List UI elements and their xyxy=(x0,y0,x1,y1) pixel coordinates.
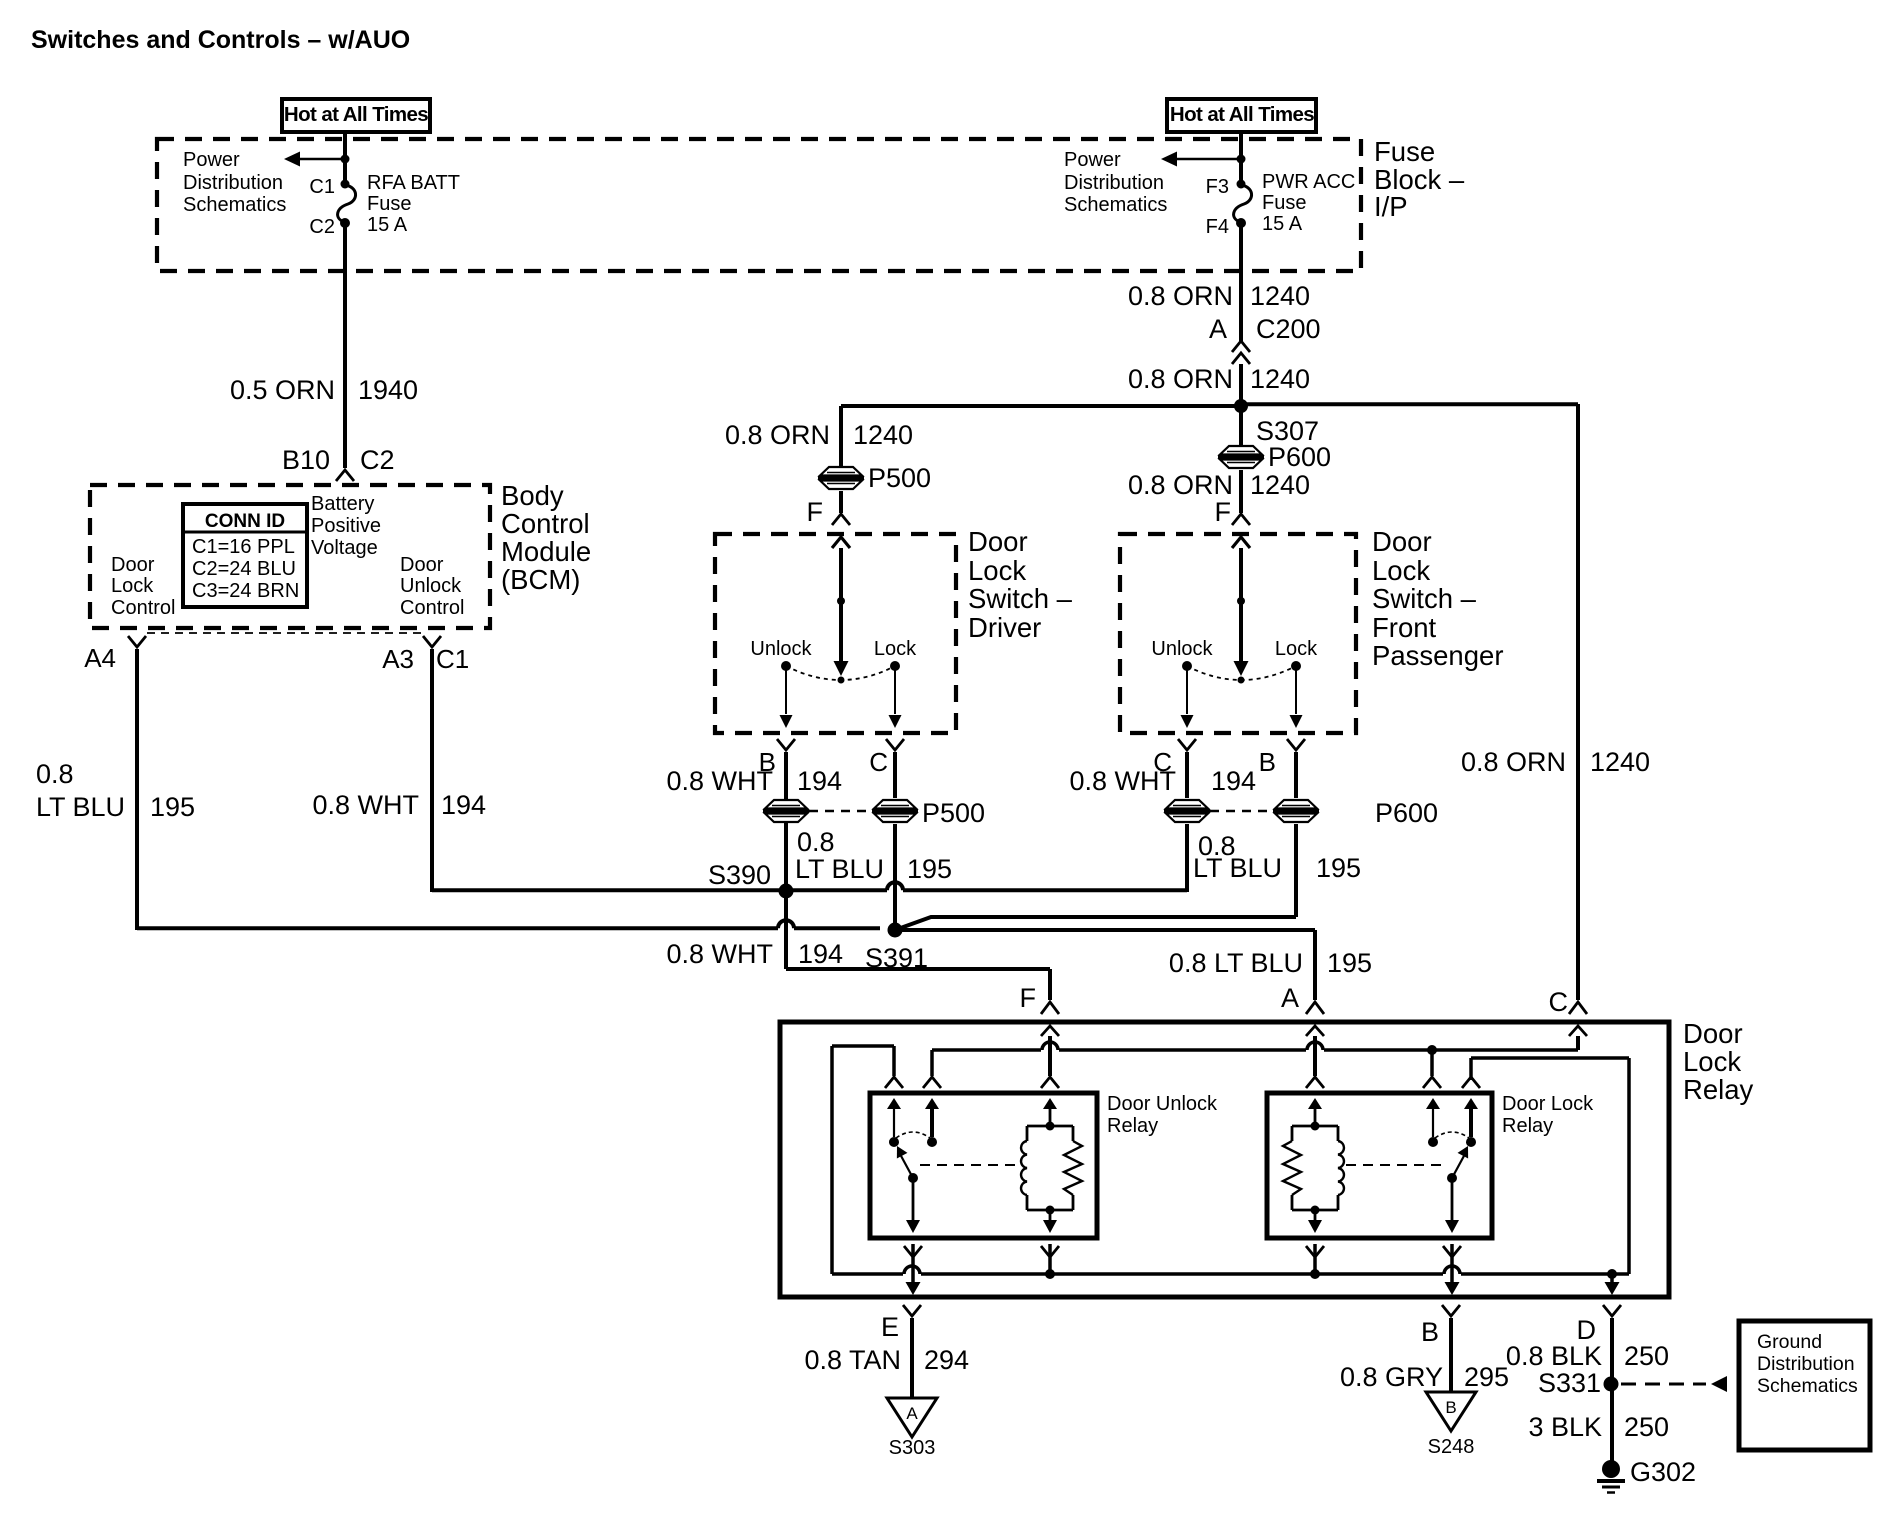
svg-text:Unlock: Unlock xyxy=(400,575,462,597)
svg-text:Lock: Lock xyxy=(1275,638,1318,660)
door unlock relay sub-box xyxy=(870,1093,1097,1238)
door lock switch driver feed arm xyxy=(839,548,843,662)
svg-text:C1=16 PPL: C1=16 PPL xyxy=(192,536,295,558)
wire: 0.8 ORN 1240 PWR ACC fuse F4 down to C200 xyxy=(1239,227,1243,341)
svg-text:Hot at All Times: Hot at All Times xyxy=(1170,103,1314,126)
wire: lock output to relay pin B xyxy=(1450,1244,1454,1282)
svg-text:Fuse: Fuse xyxy=(1374,136,1435,167)
svg-text:Unlock: Unlock xyxy=(750,638,812,660)
svg-text:I/P: I/P xyxy=(1374,191,1408,222)
lock relay contact dashed arc xyxy=(1435,1132,1469,1138)
svg-text:Door: Door xyxy=(111,554,155,576)
svg-text:194: 194 xyxy=(798,939,843,969)
svg-text:S303: S303 xyxy=(889,1437,936,1459)
relay internal: bottom bus xyxy=(832,1272,1629,1276)
connector P600 pair on passenger outputs xyxy=(1166,800,1208,809)
svg-text:B: B xyxy=(1421,1317,1439,1347)
svg-text:C200: C200 xyxy=(1256,314,1321,344)
svg-text:195: 195 xyxy=(150,792,195,822)
wire: unlock coil to bottom bus xyxy=(1048,1244,1052,1274)
connector: BCM pin A4 xyxy=(128,636,146,647)
relay internal: coil bottom junction dots xyxy=(1045,1269,1055,1279)
svg-text:P600: P600 xyxy=(1268,442,1331,472)
svg-text:Front: Front xyxy=(1372,612,1437,643)
svg-text:E: E xyxy=(881,1312,899,1342)
svg-text:Door: Door xyxy=(968,526,1028,557)
unlock relay coil xyxy=(1046,1122,1055,1131)
relay internal: lock relay NO branch xyxy=(1471,1056,1629,1060)
relay internal: pin C chevron inside xyxy=(1569,1026,1587,1036)
svg-text:Body: Body xyxy=(501,480,564,511)
svg-text:Ground: Ground xyxy=(1757,1331,1822,1353)
door lock switch front passenger unlock output xyxy=(1186,666,1188,714)
lock relay common pin arm xyxy=(1432,1103,1434,1137)
svg-text:Relay: Relay xyxy=(1107,1115,1158,1137)
wire: 0.8 WHT 194 passenger pin C down to S390 line xyxy=(1185,752,1189,798)
wire: 0.8 WHT 194 from BCM A3 down and right to S390 xyxy=(430,649,434,892)
svg-text:Lock: Lock xyxy=(874,638,917,660)
door lock switch driver lock output xyxy=(894,666,896,714)
hop: S390 line over driver pin C wire xyxy=(887,886,903,895)
svg-text:Distribution: Distribution xyxy=(1064,172,1164,194)
svg-text:Lock: Lock xyxy=(1683,1046,1741,1077)
svg-text:Fuse: Fuse xyxy=(1262,192,1306,214)
door lock switch front passenger output pin connectors xyxy=(1178,739,1196,750)
svg-text:A: A xyxy=(1209,314,1227,344)
svg-text:1240: 1240 xyxy=(1590,747,1650,777)
svg-text:1240: 1240 xyxy=(853,420,913,450)
svg-text:Control: Control xyxy=(501,508,590,539)
svg-text:LT BLU: LT BLU xyxy=(795,854,884,884)
door lock relay sub-box xyxy=(1267,1093,1492,1238)
fuse PWR ACC element xyxy=(1234,185,1252,222)
svg-text:F4: F4 xyxy=(1206,216,1229,238)
sub-box bottom pin connectors xyxy=(904,1246,922,1257)
svg-text:0.8: 0.8 xyxy=(797,827,835,857)
svg-text:Switch –: Switch – xyxy=(968,583,1073,614)
door lock switch driver dashed box xyxy=(715,534,956,733)
relay internal: left return branch xyxy=(832,1044,894,1048)
svg-text:294: 294 xyxy=(924,1345,969,1375)
svg-text:S390: S390 xyxy=(708,860,771,890)
svg-text:PWR ACC: PWR ACC xyxy=(1262,171,1355,193)
wire: S391 line right to relay A xyxy=(895,928,1315,932)
lock relay movable arm xyxy=(1452,1154,1465,1178)
svg-text:Lock: Lock xyxy=(111,575,154,597)
relay internal: pin F chevron inside xyxy=(1041,1026,1059,1036)
fuse RFA BATT terminal C1 xyxy=(341,180,350,189)
relay internal: D branch junction xyxy=(1607,1269,1617,1279)
svg-text:Distribution: Distribution xyxy=(183,172,283,194)
svg-text:194: 194 xyxy=(441,790,486,820)
svg-text:0.8 WHT: 0.8 WHT xyxy=(312,790,419,820)
door lock switch front passenger lock contact xyxy=(1291,661,1301,671)
door lock switch driver lock contact xyxy=(890,661,900,671)
node: branch to power distribution (right) xyxy=(1237,155,1246,164)
connector: driver switch pin F xyxy=(832,514,850,525)
label box: Hot at All Times (right) xyxy=(1167,99,1316,132)
svg-text:LT BLU: LT BLU xyxy=(1193,853,1282,883)
svg-text:0.5 ORN: 0.5 ORN xyxy=(230,375,335,405)
svg-text:0.8 WHT: 0.8 WHT xyxy=(1069,766,1176,796)
svg-text:0.8 ORN: 0.8 ORN xyxy=(1128,281,1233,311)
svg-text:A: A xyxy=(1281,983,1299,1013)
relay internal: pin A chevron inside xyxy=(1306,1026,1324,1036)
fuse block I/P dashed boundary xyxy=(157,139,1361,271)
svg-text:Distribution: Distribution xyxy=(1757,1353,1855,1375)
connector: relay pin C entry xyxy=(1569,1002,1587,1014)
svg-text:Switch –: Switch – xyxy=(1372,583,1477,614)
svg-text:(BCM): (BCM) xyxy=(501,564,580,595)
wire: 0.8 GRY 295 to S248 xyxy=(1449,1318,1453,1392)
connector: BCM B10 terminal xyxy=(336,470,354,481)
wire: unlock output to relay pin E xyxy=(911,1244,915,1282)
splice pack S303 triangle xyxy=(887,1398,937,1437)
svg-text:B: B xyxy=(1259,747,1276,777)
label box: Ground Distribution Schematics xyxy=(1739,1321,1870,1450)
wire: reference arrow to Power Distribution Schematics (left) xyxy=(299,158,345,161)
wire: reference arrow to Power Distribution Schematics (right) xyxy=(1176,158,1241,161)
splice S307 xyxy=(1234,399,1248,413)
svg-text:Positive: Positive xyxy=(311,515,381,537)
splice S390 xyxy=(779,884,794,899)
svg-text:Control: Control xyxy=(111,597,175,619)
fuse RFA BATT terminal C2 xyxy=(340,218,350,228)
svg-text:0.8: 0.8 xyxy=(36,759,74,789)
svg-text:194: 194 xyxy=(797,766,842,796)
lock relay output arm xyxy=(1451,1178,1454,1220)
svg-text:0.8 ORN: 0.8 ORN xyxy=(1461,747,1566,777)
unlock relay contact dashed arc xyxy=(896,1132,930,1138)
hop: S391 line over S390-relay wire xyxy=(778,924,794,933)
connector chevrons at sub-box pins xyxy=(885,1077,903,1088)
lock relay NO pin arm xyxy=(1469,1103,1473,1137)
lock relay coil xyxy=(1311,1122,1320,1131)
door lock switch driver unlock output xyxy=(785,666,787,714)
lock relay linkage dashes xyxy=(1346,1164,1444,1166)
svg-text:195: 195 xyxy=(1327,948,1372,978)
connector: relay pin E xyxy=(903,1305,921,1316)
node: branch to power distribution (left) xyxy=(341,155,350,164)
svg-text:Module: Module xyxy=(501,536,591,567)
svg-text:C3=24 BRN: C3=24 BRN xyxy=(192,580,299,602)
splice S391 xyxy=(888,923,903,938)
svg-text:1240: 1240 xyxy=(1250,364,1310,394)
connector: relay pin F entry xyxy=(1041,1002,1059,1014)
body control module dashed box xyxy=(90,485,490,628)
svg-text:Lock: Lock xyxy=(1372,555,1430,586)
unlock relay movable arm xyxy=(900,1154,913,1178)
svg-text:P500: P500 xyxy=(922,798,985,828)
svg-text:Unlock: Unlock xyxy=(1151,638,1213,660)
svg-text:0.8 LT BLU: 0.8 LT BLU xyxy=(1169,948,1303,978)
connector: BCM pin A3 / C1 xyxy=(423,636,441,647)
fuse PWR ACC terminal F3 xyxy=(1237,180,1246,189)
svg-text:Door: Door xyxy=(1683,1018,1743,1049)
svg-text:195: 195 xyxy=(907,854,952,884)
svg-text:Relay: Relay xyxy=(1683,1074,1754,1105)
BCM bottom connector face dashed line xyxy=(147,632,424,634)
svg-text:Fuse: Fuse xyxy=(367,193,411,215)
wire: 0.8 ORN 1240 S307 right to door lock relay pin C xyxy=(1241,402,1578,406)
svg-text:Door: Door xyxy=(1372,526,1432,557)
relay internal: junction on C bus xyxy=(1427,1045,1437,1055)
wire: battery feed into PWR ACC fuse xyxy=(1239,132,1243,181)
svg-text:Schematics: Schematics xyxy=(1064,194,1167,216)
wire: 0.8 ORN 1240 S307 left to driver switch feed xyxy=(841,404,1241,408)
splice pack S248 triangle xyxy=(1426,1392,1476,1431)
svg-text:Voltage: Voltage xyxy=(311,537,378,559)
svg-text:Power: Power xyxy=(1064,149,1121,171)
label box: Hot at All Times (left) xyxy=(282,99,430,132)
lock relay coil ground arm xyxy=(1314,1210,1317,1220)
svg-text:P500: P500 xyxy=(868,463,931,493)
door lock switch driver output pin connectors xyxy=(777,739,795,750)
wire: 0.5 ORN 1940 fuse C2 to BCM B10 xyxy=(343,227,347,468)
svg-text:Lock: Lock xyxy=(968,555,1026,586)
connector: relay pin B xyxy=(1442,1305,1460,1316)
unlock relay NC pin arm xyxy=(930,1103,934,1137)
ground G302 xyxy=(1602,1460,1620,1478)
door lock switch driver unlock contact xyxy=(781,661,791,671)
svg-text:RFA BATT: RFA BATT xyxy=(367,172,460,194)
svg-text:Battery: Battery xyxy=(311,493,374,515)
svg-text:Relay: Relay xyxy=(1502,1115,1553,1137)
splice S331 xyxy=(1604,1377,1619,1392)
wire: 0.8 LT BLU 195 from BCM A4 down and right to S391 xyxy=(135,649,139,930)
svg-text:A3: A3 xyxy=(382,644,414,674)
door lock switch front passenger feed arm xyxy=(1239,548,1243,662)
connector P500 pair on driver outputs xyxy=(765,800,807,809)
unlock relay output arm xyxy=(912,1178,915,1220)
svg-text:Door Lock: Door Lock xyxy=(1502,1093,1594,1115)
svg-text:LT BLU: LT BLU xyxy=(36,792,125,822)
door lock switch front passenger wiper dashed arc xyxy=(1187,666,1296,680)
svg-text:A: A xyxy=(906,1404,918,1423)
connector: relay pin D xyxy=(1603,1305,1621,1316)
svg-text:295: 295 xyxy=(1464,1362,1509,1392)
relay internal: bus from C to unlock relay NC pin xyxy=(932,1048,1578,1052)
svg-text:1240: 1240 xyxy=(1250,281,1310,311)
wire: S307 to P600 xyxy=(1239,406,1243,447)
svg-text:P600: P600 xyxy=(1375,798,1438,828)
svg-text:0.8 TAN: 0.8 TAN xyxy=(804,1345,901,1375)
svg-text:S248: S248 xyxy=(1428,1436,1475,1458)
wire: 0.8 TAN 294 to S303 xyxy=(910,1318,914,1398)
svg-text:F: F xyxy=(1215,497,1232,527)
svg-text:C: C xyxy=(1549,987,1569,1017)
wire: S391 diagonal to passenger-B line xyxy=(895,917,1296,930)
svg-text:1240: 1240 xyxy=(1250,470,1310,500)
svg-text:C1: C1 xyxy=(436,644,469,674)
svg-text:194: 194 xyxy=(1211,766,1256,796)
wire: lock coil to bottom bus xyxy=(1313,1244,1317,1274)
wire: down-right to relay F xyxy=(786,967,1050,971)
unlock relay coil feed arm xyxy=(1049,1103,1052,1126)
wire: 0.8 LT BLU 195 passenger pin B down to S391 line xyxy=(1294,752,1298,798)
door lock relay outer box xyxy=(780,1022,1669,1297)
svg-text:1940: 1940 xyxy=(358,375,418,405)
svg-text:15 A: 15 A xyxy=(367,214,408,236)
svg-text:195: 195 xyxy=(1316,853,1361,883)
unlock relay coil ground arm xyxy=(1049,1210,1052,1220)
unlock relay common pin arm xyxy=(893,1103,895,1137)
wire: 0.8 WHT 194 driver pin B to S390 xyxy=(784,752,788,799)
svg-text:Door: Door xyxy=(400,554,444,576)
unlock relay linkage dashes xyxy=(920,1164,1018,1166)
svg-text:G302: G302 xyxy=(1630,1457,1696,1487)
wire: 0.8 ORN 1240 C200 to S307 xyxy=(1239,364,1243,404)
wire: 0.8 BLK 250 to S331 xyxy=(1610,1318,1614,1461)
svg-text:B10: B10 xyxy=(282,445,330,475)
svg-text:F: F xyxy=(807,497,824,527)
svg-text:Switches and Controls – w/AUO: Switches and Controls – w/AUO xyxy=(31,26,410,54)
svg-text:CONN ID: CONN ID xyxy=(205,511,285,532)
svg-text:C: C xyxy=(869,747,888,777)
wire: battery feed into RFA BATT fuse xyxy=(343,132,347,181)
svg-text:Driver: Driver xyxy=(968,612,1041,643)
svg-text:15 A: 15 A xyxy=(1262,213,1303,235)
svg-text:250: 250 xyxy=(1624,1341,1669,1371)
svg-text:C1: C1 xyxy=(309,176,335,198)
svg-text:0.8 GRY: 0.8 GRY xyxy=(1340,1362,1443,1392)
svg-text:250: 250 xyxy=(1624,1412,1669,1442)
svg-text:C2: C2 xyxy=(309,216,335,238)
svg-text:0.8 BLK: 0.8 BLK xyxy=(1506,1341,1602,1371)
svg-text:F: F xyxy=(1020,983,1037,1013)
svg-text:Schematics: Schematics xyxy=(183,194,286,216)
svg-text:C2=24 BLU: C2=24 BLU xyxy=(192,558,296,580)
svg-text:Power: Power xyxy=(183,149,240,171)
svg-text:Schematics: Schematics xyxy=(1757,1375,1858,1397)
svg-text:0.8 ORN: 0.8 ORN xyxy=(1128,364,1233,394)
svg-text:Passenger: Passenger xyxy=(1372,640,1503,671)
svg-text:0.8 ORN: 0.8 ORN xyxy=(725,420,830,450)
svg-text:S331: S331 xyxy=(1538,1368,1601,1398)
fuse PWR ACC terminal F4 xyxy=(1236,218,1246,228)
wire: S390 line to passenger pin C xyxy=(786,888,1187,892)
door lock switch front passenger dashed box xyxy=(1120,534,1356,733)
wire: 0.8 LT BLU 195 driver pin C to S391 xyxy=(893,752,897,798)
connector: passenger switch pin F xyxy=(1232,514,1250,525)
svg-text:Door Unlock: Door Unlock xyxy=(1107,1093,1218,1115)
svg-text:F3: F3 xyxy=(1206,176,1229,198)
svg-text:B: B xyxy=(1445,1398,1456,1417)
connector: relay pin A entry xyxy=(1306,1002,1324,1014)
door lock switch front passenger lock output xyxy=(1295,666,1297,714)
door lock switch driver wiper dashed arc xyxy=(786,666,895,680)
lock relay coil feed arm xyxy=(1314,1103,1317,1126)
wire: S390 down to relay F xyxy=(784,891,788,969)
svg-text:Control: Control xyxy=(400,597,464,619)
connector P500 on driver switch feed xyxy=(820,467,862,476)
svg-text:C2: C2 xyxy=(360,445,395,475)
dashed reference to Ground Distribution Schematics xyxy=(1621,1383,1706,1386)
svg-text:Hot at All Times: Hot at All Times xyxy=(284,103,428,126)
wire: feed into driver switch pin F xyxy=(839,491,843,513)
wire: feed into passenger switch pin F xyxy=(1239,470,1243,513)
svg-text:A4: A4 xyxy=(84,643,116,673)
fuse RFA BATT element xyxy=(338,185,356,222)
svg-text:0.8 WHT: 0.8 WHT xyxy=(666,766,773,796)
door lock switch front passenger unlock contact xyxy=(1182,661,1192,671)
svg-text:3 BLK: 3 BLK xyxy=(1528,1412,1602,1442)
svg-text:0.8 ORN: 0.8 ORN xyxy=(1128,470,1233,500)
svg-text:0.8 WHT: 0.8 WHT xyxy=(666,939,773,969)
connector P600 on S307-to-passenger feed xyxy=(1220,446,1262,455)
BCM CONN ID table xyxy=(183,504,307,607)
